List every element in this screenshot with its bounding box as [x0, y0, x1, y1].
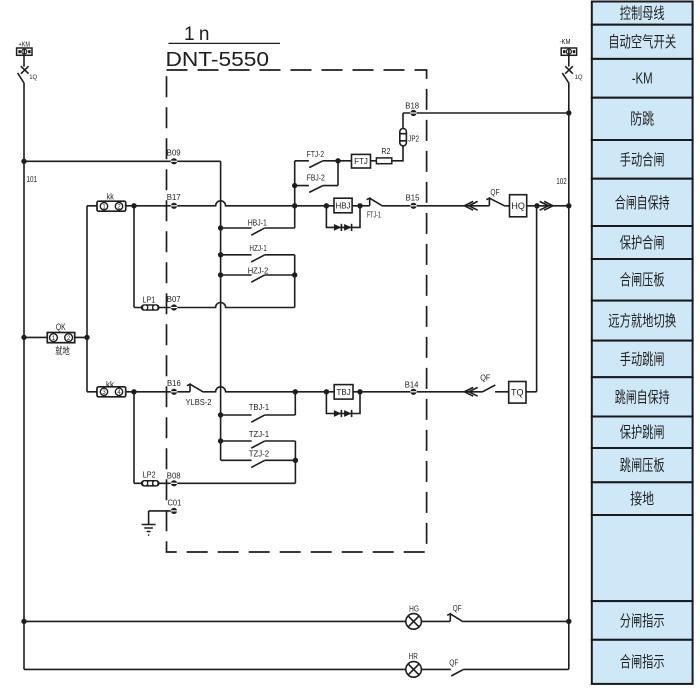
wire: TZJ right vertical x295 [294, 441, 296, 483]
legend row 合闸自保持 [592, 179, 693, 226]
svg-text:B18: B18 [405, 100, 419, 110]
link LP1 (closing strap) [141, 304, 160, 311]
svg-text:LP2: LP2 [143, 469, 156, 479]
contact QF on HR row (NO blade) [451, 669, 463, 676]
node B18 [410, 110, 417, 116]
contact HZJ-2 (NO blade) [251, 275, 264, 282]
junction: bus/HZJ-2 [218, 272, 223, 277]
wire: HZJ right vertical x295 [294, 255, 296, 308]
wire: HBJ-1 row [221, 227, 295, 229]
legend row 跳闸压板 [592, 448, 693, 482]
junction: TBJ diode left [324, 389, 329, 394]
wire: inner vertical bus of DNT-5550 [220, 161, 222, 460]
contact QF on closing row (NC tick+blade) [486, 198, 505, 206]
link LP2 (tripping strap) [141, 480, 160, 487]
wire: FBJ-2 row segments [295, 185, 338, 187]
ground symbol [142, 525, 156, 536]
svg-text:FBJ-2: FBJ-2 [307, 173, 325, 183]
legend row 跳闸自保持 [592, 377, 693, 416]
svg-text:TZJ-2: TZJ-2 [249, 448, 270, 458]
svg-text:HZJ-1: HZJ-1 [249, 243, 267, 253]
svg-text:HZJ-2: HZJ-2 [248, 265, 269, 275]
wire: ground stem [148, 511, 150, 525]
wire: anti-pump left vertical x295 [294, 161, 296, 228]
svg-text:TBJ: TBJ [336, 388, 350, 397]
legend row 接地 [592, 482, 693, 515]
terminal nodes (dark circles with slit) [171, 110, 417, 514]
node B07 [171, 304, 178, 310]
svg-text:C01: C01 [168, 498, 182, 508]
legend row 自动空气开关 [592, 25, 693, 59]
svg-text:HBJ-1: HBJ-1 [248, 218, 267, 228]
legend row 合闸指示 [592, 640, 693, 684]
svg-text:合闸自保持: 合闸自保持 [615, 194, 670, 212]
wire: QK row [24, 336, 87, 338]
junction: bus101/B09 row [21, 159, 26, 164]
contact TZJ-1 (NO blade) [251, 441, 264, 448]
contact FTJ-1 (NC tick+blade) [367, 198, 383, 206]
contact HBJ-1 (NO blade) [251, 228, 264, 235]
tripping coil TQ [509, 382, 526, 404]
wire: TBJ diode branch [326, 392, 360, 414]
wire: main tripping row y392 with hop over inner bus [87, 387, 537, 392]
svg-text:QK: QK [56, 322, 66, 332]
svg-text:B16: B16 [167, 378, 181, 388]
svg-text:QF: QF [490, 187, 499, 197]
legend table [592, 2, 693, 684]
junction: bus101/QK row [21, 335, 26, 340]
junction: TBJ diode right [357, 389, 362, 394]
junction: kk2 out [131, 389, 136, 394]
legend row 手动跳闸 [592, 341, 693, 378]
svg-text:JP2: JP2 [408, 133, 419, 143]
breaker switch 1Q left (X + blade) [18, 66, 29, 83]
svg-text:B17: B17 [167, 192, 181, 202]
junction: kk1 out [131, 203, 136, 208]
relay coil FTJ [352, 154, 371, 168]
wire: HR lamp row [24, 668, 569, 670]
junction: bus102/closing row [566, 203, 571, 208]
node B17 [171, 203, 178, 209]
wire: vertical x134 bottom (kk2 to LP2) [133, 392, 135, 484]
svg-text:1Q: 1Q [29, 75, 37, 81]
svg-text:远方就地切换: 远方就地切换 [608, 312, 676, 330]
svg-text:FTJ-2: FTJ-2 [307, 149, 324, 159]
svg-text:B09: B09 [167, 147, 181, 157]
svg-text:跳闸自保持: 跳闸自保持 [615, 388, 670, 406]
wire: TZJ-1 row [221, 440, 296, 442]
wire: main closing row y206 with hop over inner bus [87, 201, 569, 206]
svg-text:B15: B15 [406, 192, 420, 202]
resistor R2 [376, 158, 391, 164]
junction: x295/HZJ-2 [292, 272, 297, 277]
svg-text:手动跳闸: 手动跳闸 [620, 350, 665, 368]
connector chevron left of QF (tripping row) [464, 387, 477, 396]
junction: x295/main tripping row [293, 389, 298, 394]
svg-text:YLBS-2: YLBS-2 [186, 397, 212, 407]
svg-text:-KM: -KM [560, 39, 571, 46]
contact TBJ-1 (NO blade) [251, 415, 264, 422]
svg-text:B14: B14 [405, 379, 419, 389]
junction: x295/main closing row [292, 203, 297, 208]
wire: TBJ-1 right vertical [294, 392, 296, 415]
diodes D3 D4 under TBJ [334, 410, 352, 417]
svg-text:TZJ-1: TZJ-1 [249, 429, 270, 439]
jumper JP2 [400, 129, 407, 146]
junction: bus102/B18 row [566, 110, 571, 115]
wire: B18 row horizontal [403, 112, 569, 114]
junction: HBJ diode left [324, 203, 329, 208]
svg-text:HBJ: HBJ [335, 202, 350, 211]
wire: right bus 102 fuse-to-switch stub [568, 55, 570, 66]
svg-text:分闸指示: 分闸指示 [620, 612, 665, 630]
contact FBJ-2 (NO blade) [309, 186, 323, 193]
switch kk (1-2) closing [97, 201, 126, 211]
wire: TQ right vertical up to HQ junction [536, 206, 538, 392]
svg-text:TBJ-1: TBJ-1 [249, 402, 270, 412]
svg-text:B07: B07 [167, 294, 181, 304]
legend row 保护跳闸 [592, 417, 693, 449]
legend row 手动合闸 [592, 140, 693, 179]
legend row 保护合闸 [592, 226, 693, 259]
wire: JP2 lower stub to R2 corner [392, 146, 403, 161]
svg-text:TQ: TQ [511, 388, 524, 398]
svg-text:-KM: -KM [632, 71, 653, 88]
svg-text:R2: R2 [381, 146, 390, 156]
fuse -KM [561, 48, 576, 55]
wire: HG lamp row [24, 620, 569, 622]
contact FTJ-2 (NO blade) [309, 161, 323, 168]
legend row 控制母线 [592, 2, 693, 25]
svg-text:控制母线: 控制母线 [620, 5, 665, 23]
node B08 [171, 480, 178, 486]
contact YLBS-2 (NC tick+blade) [187, 384, 204, 392]
lamp HG (open indicator) [406, 614, 422, 630]
legend row -KM [592, 59, 693, 98]
wire: HZJ-1 row [221, 254, 295, 256]
wire: FTJ-2 row segments [295, 160, 352, 162]
svg-text:B08: B08 [167, 470, 181, 480]
lamp HR (closed indicator) [406, 662, 422, 678]
svg-text:保护跳闸: 保护跳闸 [620, 424, 665, 442]
contact QF on tripping row (NO rising blade) [482, 385, 495, 392]
contact QF on HG row (NC tick+blade) [447, 614, 463, 622]
svg-text:防跳: 防跳 [630, 110, 654, 128]
switch QK remote/local [47, 333, 74, 343]
svg-text:HG: HG [409, 604, 419, 614]
svg-text:手动合闸: 手动合闸 [620, 151, 665, 169]
svg-text:DNT-5550: DNT-5550 [166, 48, 270, 71]
title underline [168, 42, 280, 44]
breaker switch 1Q right (X + blade) [562, 66, 573, 83]
wire: LP2/B08 row [134, 482, 295, 484]
connector chevron left of QF (closing row) [464, 201, 477, 210]
wire: FBJ-2 right vertical up to FTJ-2 node [337, 161, 339, 186]
diodes D1 D2 under HBJ [334, 224, 352, 231]
junction: bus/TZJ-1 [218, 438, 223, 443]
wire: vertical x134 top (kk1 to LP1) [133, 206, 135, 308]
junction: QK/x87 [84, 335, 89, 340]
svg-text:LP1: LP1 [143, 295, 156, 305]
wire: C01 row [149, 510, 174, 512]
closing coil HQ [510, 195, 527, 217]
svg-text:FTJ-1: FTJ-1 [367, 210, 381, 220]
schematic small labels [19, 39, 583, 668]
wire: HZJ-2 row [221, 274, 295, 276]
junction: x295/TZJ-2 [293, 458, 298, 463]
wire: left bus 101 fuse-to-switch stub [23, 55, 25, 66]
junction: HQ output [534, 203, 539, 208]
contact HZJ-1 (NO blade) [251, 255, 264, 262]
wire: kk feeder vertical x87 [86, 206, 88, 392]
svg-text:HR: HR [409, 651, 418, 661]
node B15 [410, 203, 417, 209]
legend row empty [592, 515, 693, 601]
relay coil TBJ [334, 385, 353, 400]
junction: bus102/HG row [566, 619, 571, 624]
connector chevron right of HQ [540, 201, 553, 210]
svg-text:就地: 就地 [55, 345, 69, 358]
junction: bus/HBJ-1 [218, 225, 223, 230]
legend row 分闸指示 [592, 601, 693, 640]
wire: left bus 101 vertical [23, 83, 25, 669]
relay coil HBJ [334, 198, 352, 213]
svg-text:HQ: HQ [511, 201, 525, 211]
wire: HBJ diode branch [326, 206, 360, 228]
node B09 [171, 158, 178, 164]
wire: TBJ-1 row [221, 414, 296, 416]
legend row 防跳 [592, 98, 693, 140]
svg-text:QF: QF [453, 603, 462, 613]
contact TZJ-2 (NO blade) [251, 460, 264, 467]
svg-text:101: 101 [27, 174, 38, 184]
svg-text:QF: QF [480, 372, 490, 382]
node B16 [171, 389, 178, 395]
wire: R2 to FTJ link [371, 160, 377, 162]
junction: x295/FBJ-2 [292, 183, 297, 188]
junction: FTJ-2/FBJ-2 out [335, 158, 340, 163]
dashed relay box DNT-5550 [167, 70, 427, 552]
svg-text:接地: 接地 [630, 490, 654, 508]
wire: right bus 102 vertical [568, 83, 570, 669]
switch kk (3-4) tripping [97, 387, 126, 397]
svg-text:自动空气开关: 自动空气开关 [608, 33, 676, 51]
wire: LP1/B07 row with hop [134, 303, 295, 308]
legend row 远方就地切换 [592, 301, 693, 341]
junction: bus101/HG row [21, 619, 26, 624]
node C01 [171, 508, 178, 514]
svg-text:1: 1 [52, 335, 56, 342]
svg-text:合闸压板: 合闸压板 [620, 271, 665, 289]
svg-text:合闸指示: 合闸指示 [620, 653, 665, 671]
svg-text:跳闸压板: 跳闸压板 [620, 457, 665, 475]
svg-text:kk: kk [107, 191, 114, 202]
wire: TZJ-2 row [221, 459, 296, 461]
svg-text:1Q: 1Q [575, 75, 583, 81]
wire: B09 row horizontal [24, 160, 221, 162]
junction: HBJ diode right [357, 203, 362, 208]
legend row 合闸压板 [592, 259, 693, 301]
junction: bus/TBJ-1 [218, 412, 223, 417]
svg-text:102: 102 [556, 176, 567, 186]
svg-text:kk: kk [106, 380, 114, 391]
fuse +KM [17, 48, 32, 55]
svg-text:保护合闸: 保护合闸 [620, 234, 665, 252]
svg-text:2: 2 [67, 335, 71, 342]
svg-text:QF: QF [449, 658, 458, 668]
junction: bus/HZJ-1 [218, 252, 223, 257]
wire: JP2 upper stub [402, 113, 404, 129]
svg-text:FTJ: FTJ [354, 157, 368, 166]
node B14 [410, 389, 417, 395]
svg-text:+KM: +KM [19, 41, 31, 48]
